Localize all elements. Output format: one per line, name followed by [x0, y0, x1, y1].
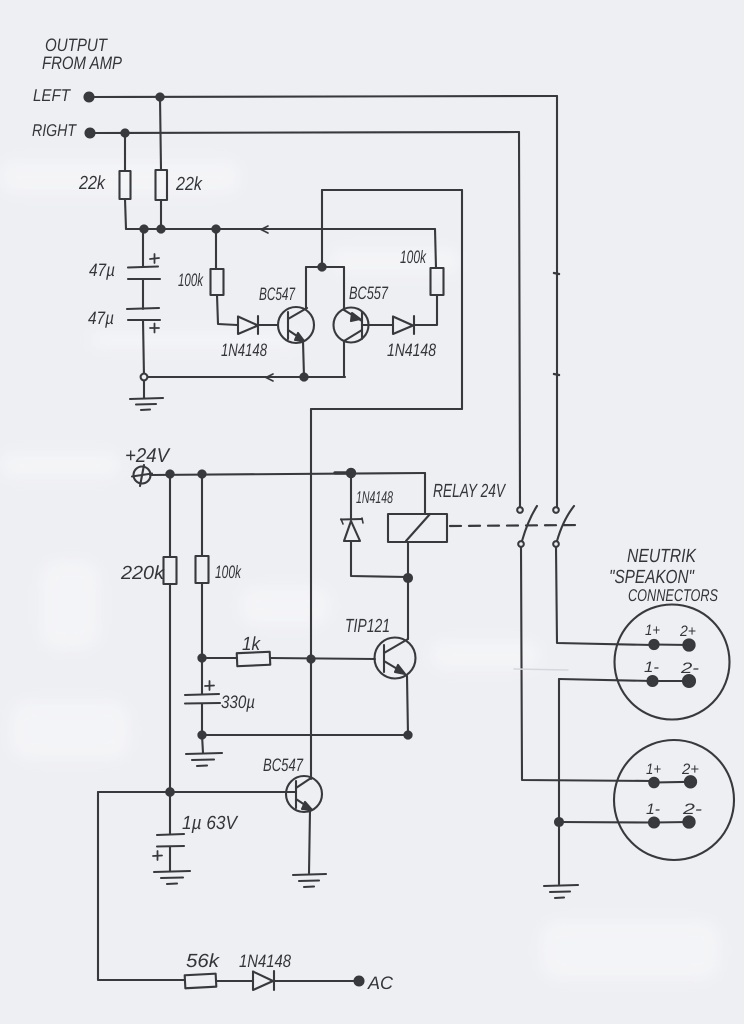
svg-text:"SPEAKON": "SPEAKON" [609, 567, 695, 588]
wire Q4 emitter down [309, 810, 310, 873]
ground G4 (1u cap) [154, 871, 190, 872]
node RIGHT input terminal [86, 129, 95, 138]
wire rail C (+24V, y=474) [150, 473, 425, 475]
svg-text:CONNECTORS: CONNECTORS [628, 586, 718, 605]
svg-text:TIP121: TIP121 [345, 616, 390, 637]
wire Q2 base to diode [362, 324, 393, 326]
wire faint erased stub [514, 669, 568, 670]
resistor 1k [202, 657, 237, 659]
wire left drop to AC line [98, 792, 185, 980]
wire rail A (y=229) [126, 228, 435, 230]
wire arrow mark on rail B [266, 374, 273, 381]
capacitor 47u lower [142, 279, 144, 309]
ground G1 [143, 381, 145, 398]
svg-text:OUTPUT: OUTPUT [45, 35, 109, 55]
ground G3 (Q4 emitter) [293, 874, 326, 875]
svg-text:22k: 22k [175, 174, 203, 195]
wire box top [322, 189, 462, 191]
diode 1N4148 (right, to BC557 base) [393, 317, 413, 335]
wire first stage output down (x=311) [310, 409, 312, 659]
svg-text:330µ: 330µ [221, 692, 255, 712]
wire Q1 collector up [305, 267, 307, 308]
wire box bottom [311, 408, 462, 410]
svg-text:BC557: BC557 [349, 283, 389, 303]
node junction mid [318, 263, 325, 270]
svg-text:1+: 1+ [646, 761, 661, 778]
wire Q3 emitter down [407, 676, 408, 735]
node junction rail D right [404, 731, 411, 738]
wire speakon2 minus row [559, 821, 689, 824]
svg-text:100k: 100k [400, 247, 427, 267]
svg-text:1N4148: 1N4148 [356, 488, 393, 507]
wire caps to rail B [143, 320, 144, 377]
wire box right vertical [461, 190, 463, 409]
wire speakon1 minus row [559, 679, 689, 681]
ground G2 [202, 735, 203, 753]
node junction 1k / first-stage line [307, 655, 314, 662]
svg-text:1+: 1+ [645, 622, 660, 639]
wire Q1 emitter down [303, 341, 304, 377]
svg-text:47µ: 47µ [88, 308, 114, 328]
svg-text:1N4148: 1N4148 [387, 340, 436, 360]
wire arrow mark on rail A [261, 226, 268, 233]
wire box mid horizontal [306, 266, 344, 268]
label NEUTRIK SPEAKON CONNECTORS [609, 546, 718, 605]
node junction rail A / 100k left [212, 225, 219, 232]
svg-text:RELAY 24V: RELAY 24V [433, 481, 507, 502]
svg-text:1N4148: 1N4148 [239, 951, 291, 971]
wire Q2 emitter up [343, 267, 345, 310]
wire RIGHT down to relay contact [519, 132, 520, 507]
wire dashed relay linkage [450, 525, 581, 526]
wire Q4 collector up to 1k node [310, 659, 312, 779]
resistor 100k (timer) [201, 474, 203, 556]
label OUTPUT FROM AMP [42, 35, 122, 73]
wire mid vertical to box top [321, 190, 323, 267]
wire Q2 collector down to rail B [343, 341, 345, 377]
svg-text:100k: 100k [215, 562, 242, 582]
svg-text:2+: 2+ [679, 623, 696, 640]
resistor 220k [169, 474, 171, 557]
relay contact S1 (right channel) [517, 507, 523, 513]
resistor 100k (first stage right) [431, 268, 444, 295]
svg-text:LEFT: LEFT [33, 86, 71, 105]
svg-text:1N4148: 1N4148 [221, 340, 267, 360]
svg-text:1-: 1- [646, 801, 660, 818]
svg-text:NEUTRIK: NEUTRIK [627, 546, 697, 567]
wire +24V corner down to relay [424, 473, 426, 514]
node junction 220k [166, 470, 173, 477]
wire rail B (y=377) [144, 376, 345, 378]
svg-text:RIGHT: RIGHT [32, 121, 77, 140]
wire speakon1 plus link [654, 643, 689, 646]
capacitor 47u upper [142, 229, 144, 267]
svg-text:+24V: +24V [125, 445, 171, 467]
node junction 1k / cap [198, 654, 205, 661]
svg-text:220k: 220k [120, 563, 166, 584]
relay contact S2 (left channel) [553, 507, 559, 513]
wire S2 down to speakon 1 [556, 547, 653, 645]
node junction relay bottom [404, 574, 412, 582]
svg-text:BC547: BC547 [263, 755, 304, 775]
node junction 100k [198, 470, 205, 477]
wire RIGHT row [94, 132, 519, 133]
svg-text:AC: AC [367, 973, 394, 993]
svg-text:FROM AMP: FROM AMP [42, 53, 122, 73]
wire ground drop from speakon rows [558, 679, 560, 884]
wire S1 down to speakon 2 [521, 547, 654, 781]
node AC terminal [355, 977, 364, 986]
svg-text:100k: 100k [178, 270, 204, 290]
svg-text:1k: 1k [242, 634, 261, 655]
node junction rail A / 22k right [157, 225, 164, 232]
svg-text:56k: 56k [186, 951, 221, 972]
diode 1N4148 (left, to BC547 base) [238, 317, 258, 335]
svg-text:1µ 63V: 1µ 63V [182, 813, 239, 834]
resistor 22k right [160, 97, 161, 170]
node junction rail B left [141, 374, 148, 381]
svg-text:22k: 22k [78, 173, 106, 194]
wire Q3 collector up [407, 578, 409, 639]
node junction RIGHT/22k [121, 129, 128, 136]
node LEFT input terminal [85, 93, 94, 102]
ground G5 (speakon) [544, 885, 578, 886]
svg-text:2-: 2- [682, 801, 702, 818]
wire LEFT row [92, 96, 557, 97]
wire LEFT down to relay contact [556, 96, 558, 507]
node junction speakon2 minus [555, 818, 563, 826]
wire speakon2 plus link [654, 781, 691, 784]
resistor 100k (first stage left) [215, 229, 217, 269]
wire rail D (emitter ground rail y=735) [202, 734, 408, 736]
speakon connector 1 circle [615, 605, 730, 720]
capacitor 330u [201, 658, 203, 694]
node junction rail A / caps [140, 225, 147, 232]
node junction rail D left [198, 731, 205, 738]
svg-text:1-: 1- [644, 659, 659, 676]
resistor 22k left [124, 133, 126, 171]
power terminal +24V [134, 467, 151, 484]
wire Q4 base row [98, 791, 296, 793]
node junction relay branch [347, 469, 355, 477]
node junction LEFT/22k [156, 93, 163, 100]
svg-text:BC547: BC547 [259, 284, 296, 304]
svg-text:47µ: 47µ [89, 260, 115, 280]
node junction rail B / BC547 emitter [300, 373, 307, 380]
node junction 220k / base [166, 788, 174, 796]
speakon connector 2 circle [614, 740, 734, 860]
